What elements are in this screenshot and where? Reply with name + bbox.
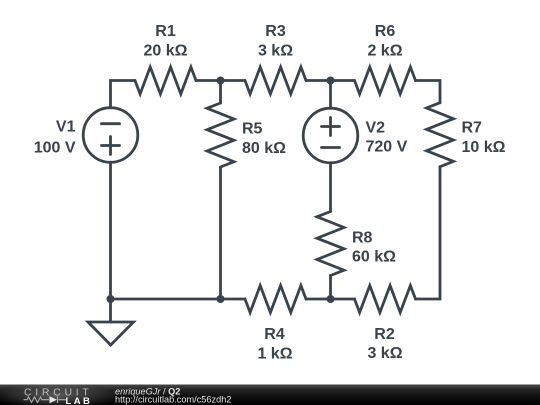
wire top-left corner V1 to R1 — [111, 81, 136, 108]
svg-text:10 kΩ: 10 kΩ — [462, 139, 506, 156]
ground node junction dot — [107, 295, 115, 303]
svg-text:80 kΩ: 80 kΩ — [242, 140, 286, 157]
wire R4 to node D — [306, 298, 331, 301]
wire node B to V2 — [329, 81, 332, 109]
svg-text:R7: R7 — [462, 120, 483, 137]
svg-text:R5: R5 — [242, 120, 263, 137]
resistor R5 — [207, 103, 234, 167]
resistor R3 — [245, 67, 306, 94]
voltage source V1 — [83, 108, 138, 163]
wire R2 to node D — [331, 298, 355, 301]
svg-text:20 kΩ: 20 kΩ — [144, 43, 188, 60]
wire R8 to bottom — [329, 276, 332, 300]
wire R5 to bottom — [219, 167, 222, 299]
svg-text:V1: V1 — [56, 119, 76, 136]
CircuitLab logo resistor-diode glyph — [24, 396, 67, 403]
logo diode triangle — [50, 396, 58, 403]
node A junction dot — [217, 77, 225, 85]
svg-text:http://circuitlab.com/c56zdh2: http://circuitlab.com/c56zdh2 — [115, 395, 231, 405]
resistor R8 — [317, 212, 344, 276]
svg-text:1 kΩ: 1 kΩ — [257, 345, 292, 362]
svg-text:V2: V2 — [366, 120, 386, 137]
resistor R2 — [355, 286, 416, 313]
svg-text:R6: R6 — [375, 23, 396, 40]
wire V1 bottom to ground node — [109, 162, 112, 299]
node C junction dot — [217, 295, 225, 303]
svg-text:3 kΩ: 3 kΩ — [258, 43, 293, 60]
svg-text:100 V: 100 V — [34, 140, 76, 157]
ground — [109, 299, 112, 322]
node D junction dot — [327, 295, 335, 303]
resistor R6 — [355, 67, 416, 94]
svg-text:2 kΩ: 2 kΩ — [367, 43, 402, 60]
svg-text:R4: R4 — [264, 326, 285, 343]
svg-text:R1: R1 — [155, 23, 176, 40]
resistor R1 — [135, 67, 196, 94]
wire R7 to bottom-right corner — [416, 167, 441, 299]
wire node A to R5 — [219, 81, 222, 104]
wire ground node to R4 — [111, 298, 246, 301]
svg-text:R2: R2 — [374, 326, 395, 343]
svg-text:R8: R8 — [352, 230, 373, 247]
wire V2 to R8 — [329, 163, 332, 212]
svg-text:720 V: 720 V — [366, 139, 408, 156]
resistor R4 — [245, 286, 306, 313]
svg-text:LAB: LAB — [66, 396, 93, 405]
svg-text:60 kΩ: 60 kΩ — [352, 249, 396, 266]
wire R6 to top-right corner — [416, 81, 441, 103]
svg-text:R3: R3 — [265, 23, 286, 40]
wire R3 to node B — [306, 79, 355, 82]
wire R1 to node A — [196, 79, 245, 82]
voltage source V2 — [303, 108, 358, 163]
resistor R7 — [427, 103, 454, 167]
node B junction dot — [327, 77, 335, 85]
svg-text:3 kΩ: 3 kΩ — [367, 345, 402, 362]
